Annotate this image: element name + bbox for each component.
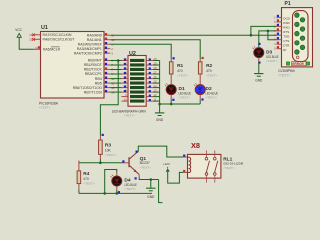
U2 left pin 1: [122, 60, 129, 62]
U2 right pin 16: [146, 78, 153, 80]
R4 top pin: [78, 161, 80, 171]
wire U2 pin 12 to ground bus: [153, 96, 160, 98]
U2 right pin 20: [146, 60, 153, 62]
DB9 index hole: [296, 56, 299, 59]
svg-text:<TEXT>: <TEXT>: [105, 153, 117, 157]
wire RB6 to bargraph pin 7: [110, 87, 121, 89]
P1 pin 2 RXD: [277, 25, 282, 27]
svg-text:10: 10: [124, 98, 128, 102]
wire D4 anode loop: [105, 170, 117, 194]
svg-text:X8: X8: [191, 141, 200, 150]
svg-text:<TEXT>: <TEXT>: [124, 113, 136, 117]
wire U2 pin 19 to ground bus: [153, 64, 160, 66]
svg-text:RB6/T1OSO/T1CKI: RB6/T1OSO/T1CKI: [73, 86, 102, 90]
wire RB2 to bargraph pin 3: [110, 69, 121, 71]
wire U2 pin 14 to ground bus: [153, 87, 160, 89]
node junction bus to LED cathode rail: [158, 103, 161, 106]
svg-text:RB2/TX/CK: RB2/TX/CK: [84, 68, 103, 72]
D4 anode pin: [116, 172, 118, 176]
U1 right pin 13 RB7/T1OSI: [104, 91, 110, 93]
svg-text:ERROR: ERROR: [292, 62, 304, 66]
svg-text:DSR: DSR: [283, 21, 290, 25]
P1 pin 9 RI: [277, 48, 282, 50]
svg-text:RA3/AN3/CMP1: RA3/AN3/CMP1: [77, 47, 102, 51]
U2 right pin 15: [146, 82, 153, 84]
svg-text:VCC: VCC: [15, 28, 22, 32]
bargraph U2 LED segment 2: [130, 64, 144, 67]
R4 bottom pin: [78, 184, 80, 190]
relay coil top pin: [183, 156, 187, 158]
U2 right pin 17: [146, 73, 153, 75]
wire +12V to relay coil bottom: [168, 172, 184, 183]
wire RA0 branch to P1 RXD: [251, 26, 277, 35]
svg-text:RB5: RB5: [95, 81, 102, 85]
U2 left pin 6: [122, 82, 129, 84]
svg-text:<TEXT>: <TEXT>: [179, 96, 191, 100]
U1 right pin 9 RB3/CCP1: [104, 73, 110, 75]
relay coil bottom pin: [183, 171, 187, 173]
R3 top pin: [99, 136, 101, 140]
relay contact top pin: [214, 150, 216, 157]
wire U2 pin 17 to ground bus: [153, 73, 160, 75]
svg-text:BC237: BC237: [140, 161, 150, 165]
svg-text:GND: GND: [147, 195, 155, 199]
microcontroller U1 PIC16F628A body: [41, 32, 105, 99]
U1 left pin 4 RA5/MCLR: [34, 48, 41, 50]
P1 pin 1 DCD: [277, 16, 282, 18]
bargraph U2 LED segment 7: [130, 86, 144, 89]
node junction emitter ground: [150, 178, 153, 181]
ground symbol below Q1 emitter: [150, 180, 152, 189]
svg-text:RB3/CCP1: RB3/CCP1: [85, 72, 102, 76]
bargraph U2 LED segment 3: [130, 68, 144, 71]
relay RL1 body: [188, 154, 221, 178]
P1 DB9 connector shell: [293, 11, 309, 62]
P1 pin 8 CTS: [277, 39, 282, 41]
svg-text:10K: 10K: [105, 148, 112, 152]
U2 right pin 19: [146, 64, 153, 66]
svg-text:CTS: CTS: [283, 39, 289, 43]
wire RB0 tap to resistor R3: [100, 61, 118, 136]
relay contact bottom pin: [214, 175, 216, 182]
diode D1 LED-BLUE: [166, 85, 176, 95]
U2 left pin 4: [122, 73, 129, 75]
svg-text:+12V: +12V: [163, 162, 170, 166]
transistor Q1 BC237: [128, 157, 129, 167]
node junction D4 cathode rail: [116, 192, 119, 195]
DB9 pin hole left 1: [295, 13, 300, 18]
svg-text:GND: GND: [255, 79, 263, 83]
U2 right pin 13: [146, 91, 153, 93]
ground symbol below U2 bus: [159, 112, 161, 114]
ground symbol below D3: [258, 72, 260, 74]
Q1 collector pin: [137, 151, 139, 152]
wire U2 cathode bus vertical: [159, 61, 161, 113]
U1 right pin 11 RB5: [104, 82, 110, 84]
svg-text:RB0/INT: RB0/INT: [88, 59, 102, 63]
U1 right pin 12 RB6/T1OSO/T1CKI: [104, 87, 110, 89]
Q1 base pin stub: [123, 162, 129, 164]
U1 right pin 17 RA0/AN0: [104, 34, 110, 36]
node junction D4 loop to rail: [103, 192, 106, 195]
svg-text:4: 4: [35, 46, 37, 50]
node junction RXD TXD link: [267, 30, 270, 33]
svg-text:470: 470: [83, 177, 89, 181]
wire RB7 to bargraph pin 8: [110, 91, 121, 93]
DB9 pin hole left 2: [295, 22, 300, 27]
wire RA1 pin18 to resistor R2: [110, 40, 200, 60]
wire R2 to D2 anode: [199, 74, 201, 84]
wire branch to P1 CTS: [268, 31, 277, 40]
U1 right pin 18 RA1/AN1: [104, 39, 110, 41]
DB9 pin hole right 6: [300, 18, 305, 23]
DB9 pin hole left 3: [295, 31, 300, 36]
svg-text:RA0/AN0: RA0/AN0: [87, 33, 102, 37]
wire U2 pin 20 to ground bus: [153, 60, 160, 62]
wire RB3 to bargraph pin 4: [110, 73, 121, 75]
wire RB0 to bargraph pin 1: [110, 60, 121, 62]
diode D2 LED-BLUE lit: [195, 85, 205, 95]
U1 left pin 16 RA7/OSC1/CLKIN: [34, 34, 41, 36]
wire RA2 pin1 to resistor R1: [110, 44, 171, 59]
svg-text:U1: U1: [41, 25, 48, 31]
bargraph U2 LED segment 1: [130, 59, 144, 62]
svg-text:<TEXT>: <TEXT>: [83, 182, 95, 186]
svg-text:<TEXT>: <TEXT>: [177, 74, 189, 78]
wire VCC to U1 MCLR pin: [19, 37, 33, 49]
svg-text:GND: GND: [156, 118, 164, 122]
R3 bottom pin: [99, 154, 101, 159]
svg-text:DTR: DTR: [283, 43, 290, 47]
svg-text:<TEXT>: <TEXT>: [206, 96, 218, 100]
wire base rail R4 to Q1 base: [79, 162, 123, 164]
U2 right pin 11: [146, 100, 153, 102]
wire RB4 to bargraph pin 5: [110, 78, 121, 80]
relay RL1 switch contact at x=206.5: [205, 157, 208, 160]
U2 left pin 7: [122, 87, 129, 89]
wire D4 cathode to bottom rail: [116, 190, 118, 193]
P1 pin 6 DSR: [277, 21, 282, 23]
U2 left pin 3: [122, 69, 129, 71]
svg-text:<TEXT>: <TEXT>: [266, 59, 278, 63]
bargraph U2 LED segment 9: [130, 95, 144, 98]
svg-text:RI: RI: [283, 48, 286, 52]
wire U2 pin 11 to ground bus: [153, 100, 160, 102]
svg-text:RA6/OSC2/CLKOUT: RA6/OSC2/CLKOUT: [43, 38, 75, 42]
bargraph U2 LED segment 10: [130, 100, 144, 103]
U2 left pin 8: [122, 91, 129, 93]
wire D3 cathode to ground: [258, 62, 260, 73]
svg-text:<TEXT>: <TEXT>: [278, 74, 290, 78]
U2 right pin 12: [146, 96, 153, 98]
D3 cathode pin: [258, 58, 260, 63]
wire D3 anode to P1 RTS: [259, 31, 277, 48]
P1 pin 7 RTS: [277, 30, 282, 32]
svg-text:DCD: DCD: [283, 17, 290, 21]
diode D3 LED-BLUE: [254, 48, 264, 58]
U1 right pin 7 RB1/RX/DT: [104, 64, 110, 66]
D2 cathode pin to rail: [199, 95, 201, 100]
svg-text:<TEXT>: <TEXT>: [206, 74, 218, 78]
bargraph U2 LED segment 8: [130, 91, 144, 94]
svg-text:G52-03-112DM: G52-03-112DM: [223, 162, 243, 166]
svg-text:P1: P1: [285, 1, 291, 7]
U1 right pin 3 RA4/T0CKI/CMP2: [104, 52, 110, 54]
DB9 pin hole right 8: [300, 36, 305, 41]
svg-text:RA2/AN2/VREF: RA2/AN2/VREF: [78, 42, 102, 46]
wire RA0 pin17 to P1 TXD: [110, 34, 276, 36]
DB9 pin hole right 7: [300, 27, 305, 32]
wire U2 pin 18 to ground bus: [153, 69, 160, 71]
node junction base rail: [99, 162, 102, 165]
wire U2 pin 16 to ground bus: [153, 78, 160, 80]
resistor R3 10K: [99, 140, 103, 154]
wire U2 pin 13 to ground bus: [153, 91, 160, 93]
resistor R1 470: [169, 62, 173, 74]
svg-text:RA7/OSC1/CLKIN: RA7/OSC1/CLKIN: [43, 33, 73, 37]
svg-text:RB1/RX/DT: RB1/RX/DT: [84, 63, 102, 67]
bargraph U2 LED segment 4: [130, 73, 144, 76]
U1 left pin 15 RA6/OSC2/CLKOUT: [34, 38, 41, 40]
DB9 pin hole right 9: [300, 45, 305, 50]
svg-text:<TEXT>: <TEXT>: [223, 166, 235, 170]
bargraph U2 LED segment 5: [130, 77, 144, 80]
svg-text:470: 470: [206, 69, 212, 73]
connector P1 COMPIM body: [282, 8, 313, 67]
svg-text:<TEXT>: <TEXT>: [124, 187, 136, 191]
wire Q1 collector to relay coil: [138, 146, 183, 157]
U2 right pin 18: [146, 69, 153, 71]
wire R1 to D1 anode: [170, 74, 172, 84]
bargraph U2 LED segment 6: [130, 82, 144, 85]
bargraph U2 body: [128, 56, 146, 107]
U2 left pin 5: [122, 78, 129, 80]
resistor R2 470: [198, 62, 202, 74]
svg-text:RXD: RXD: [283, 26, 290, 30]
wire U2 pin 15 to ground bus: [153, 82, 160, 84]
relay RL1 switch contact at x=214.8: [214, 157, 217, 160]
wire RB1 to bargraph pin 2: [110, 64, 121, 66]
U2 left pin 2: [122, 64, 129, 66]
wire bottom rail: [79, 192, 152, 194]
svg-text:RA4/T0CKI/CMP2: RA4/T0CKI/CMP2: [74, 51, 102, 55]
svg-text:TXD: TXD: [283, 34, 290, 38]
relay contact bottom pin: [206, 175, 208, 182]
diode D4 LED-BLUE: [112, 176, 122, 186]
U2 right pin 14: [146, 87, 153, 89]
wire LED cathode rail D1 D2: [160, 103, 201, 105]
U1 right pin 1 RA2/AN2/VREF: [104, 43, 110, 45]
U2 left pin 10: [122, 100, 129, 102]
relay contact top pin: [206, 150, 208, 157]
P1 pin 3 TXD: [277, 34, 282, 36]
svg-text:U2: U2: [129, 51, 136, 57]
svg-text:<TEXT>: <TEXT>: [140, 166, 152, 170]
wire Q1 emitter to ground: [139, 177, 158, 179]
wire emitter stub down: [159, 180, 163, 203]
P1 error indicator squares: [286, 62, 289, 65]
svg-text:470: 470: [177, 69, 183, 73]
svg-text:RB7/T1OSI: RB7/T1OSI: [84, 90, 102, 94]
U1 right pin 8 RB2/TX/CK: [104, 69, 110, 71]
wire RB5 to bargraph pin 6: [110, 82, 121, 84]
U1 right pin 2 RA3/AN3/CMP1: [104, 48, 110, 50]
wire R3 to base rail: [99, 159, 101, 163]
U2 left pin 9: [122, 96, 129, 98]
svg-text:RA1/AN1: RA1/AN1: [87, 38, 102, 42]
Q1 emitter pin: [138, 174, 140, 177]
svg-text:COMPIM: COMPIM: [278, 68, 294, 73]
svg-text:RB4: RB4: [95, 77, 102, 81]
node junction D1 cathode: [170, 103, 173, 106]
U1 right pin 10 RB4: [104, 78, 110, 80]
P1 error label box: [292, 62, 306, 66]
relay RL1 coil: [188, 157, 191, 173]
D1 cathode pin to rail: [170, 95, 172, 100]
svg-text:<TEXT>: <TEXT>: [39, 106, 51, 110]
R2 top pin: [199, 59, 201, 62]
wire R4 bottom to bottom rail: [78, 190, 80, 194]
DB9 pin hole left 5: [295, 50, 300, 55]
svg-text:RA5/MCLR: RA5/MCLR: [43, 48, 61, 52]
node junction RB0 tap: [117, 59, 120, 62]
node junction RA0 branch: [250, 34, 253, 37]
U1 right pin 6 RB0/INT: [104, 60, 110, 62]
D4 cathode pin: [116, 186, 118, 190]
DB9 pin hole left 4: [295, 41, 300, 46]
P1 pin 4 DTR: [277, 43, 282, 45]
R1 top pin: [170, 59, 172, 62]
resistor R4 470: [77, 171, 81, 184]
